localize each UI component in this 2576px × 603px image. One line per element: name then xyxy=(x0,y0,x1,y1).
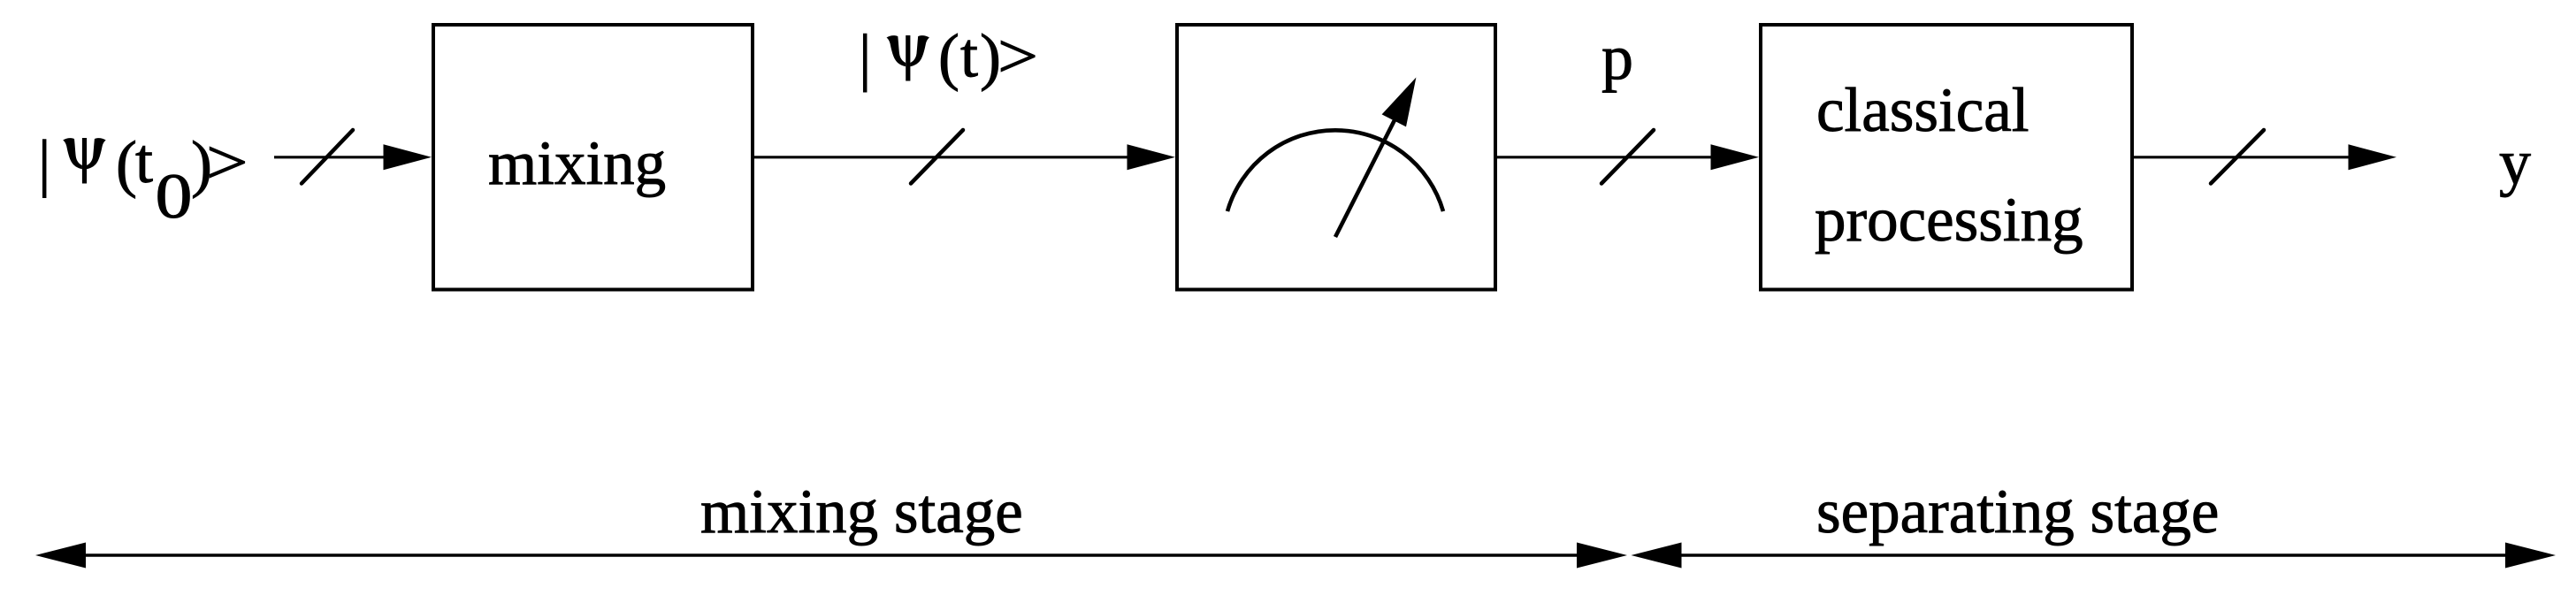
arrowhead output xyxy=(2349,144,2397,170)
wire output xyxy=(2134,156,2355,158)
svg-text:|: | xyxy=(38,127,50,198)
meter dial arc xyxy=(1227,130,1443,211)
bus slash 1 xyxy=(302,130,353,184)
svg-text:(: ( xyxy=(938,21,959,92)
svg-text:>: > xyxy=(998,21,1038,92)
block mixing box xyxy=(433,25,753,290)
svg-text:(: ( xyxy=(116,128,137,199)
svg-text:>: > xyxy=(206,127,248,198)
bus slash 3 xyxy=(1601,130,1654,184)
arrowhead into classical box xyxy=(1711,144,1760,170)
node state label |Psi(t)> xyxy=(859,20,1038,93)
meter needle arrowhead xyxy=(1382,78,1417,127)
wire meter to classical processing xyxy=(1497,156,1717,158)
node input ket label |Psi(t0)> xyxy=(38,126,248,232)
arrowhead into meter box xyxy=(1127,144,1176,170)
svg-text:0: 0 xyxy=(156,161,193,232)
svg-text:t: t xyxy=(960,20,978,91)
meter needle xyxy=(1335,113,1398,237)
svg-text:y: y xyxy=(2499,127,2531,198)
bus slash 2 xyxy=(911,130,963,184)
svg-text:mixing stage: mixing stage xyxy=(700,477,1023,546)
separating stage span arrow xyxy=(1632,543,2557,569)
svg-text:t: t xyxy=(135,126,153,196)
svg-text:|: | xyxy=(859,22,871,93)
wire input bus xyxy=(274,156,390,158)
wire mixing to meter xyxy=(754,156,1134,158)
svg-text:mixing: mixing xyxy=(488,129,666,198)
svg-text:processing: processing xyxy=(1815,186,2083,255)
svg-text:separating stage: separating stage xyxy=(1816,477,2219,546)
mixing stage span arrow xyxy=(35,543,1627,569)
svg-text:p: p xyxy=(1601,22,1633,93)
bus slash 4 xyxy=(2211,130,2264,184)
block classical processing box xyxy=(1761,25,2132,290)
svg-text:classical: classical xyxy=(1816,76,2029,145)
block measurement meter box xyxy=(1177,25,1495,290)
arrowhead into mixing box xyxy=(384,144,432,170)
